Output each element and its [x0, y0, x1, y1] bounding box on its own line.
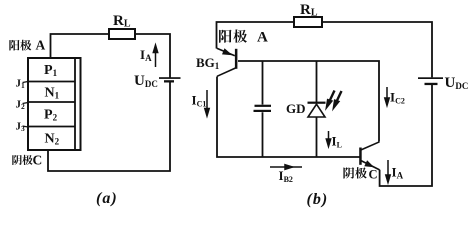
transistor BG1 collector	[217, 68, 236, 76]
svg-text:IC2: IC2	[390, 90, 405, 106]
capacitor C bottom plate	[254, 110, 272, 112]
J1 tick	[23, 82, 29, 83]
junction J2 divider	[28, 101, 75, 103]
wire top right (a)	[135, 34, 170, 78]
wire BG1 collector down	[217, 77, 360, 158]
svg-text:IL: IL	[332, 134, 342, 150]
svg-text:N1: N1	[45, 86, 60, 101]
svg-text:(a): (a)	[96, 190, 118, 207]
transistor BG2 bar	[359, 148, 362, 165]
wire battery down + bottom wire (b)	[380, 85, 432, 186]
battery UDC (a) long plate	[159, 77, 181, 79]
svg-text:(b): (b)	[307, 191, 329, 208]
svg-text:N2: N2	[45, 132, 60, 147]
light arrow 1	[327, 91, 335, 107]
svg-text:J1: J1	[16, 78, 26, 91]
battery UDC (b) short plate	[425, 83, 438, 85]
svg-text:P2: P2	[44, 108, 58, 123]
junction J1 divider	[28, 81, 75, 83]
junction J3 divider	[28, 126, 75, 128]
battery UDC (a) short plate	[164, 80, 174, 82]
svg-text:J3: J3	[16, 121, 26, 134]
svg-text:C: C	[369, 168, 378, 182]
wire battery to bottom (a)	[48, 82, 170, 171]
svg-text:IA: IA	[140, 47, 152, 63]
current arrow IC1	[205, 90, 209, 116]
transistor BG2 collector	[361, 142, 380, 150]
svg-text:A: A	[257, 30, 268, 46]
svg-text:A: A	[36, 38, 46, 53]
label anode A (b)	[219, 29, 247, 42]
current arrow IC2	[385, 87, 389, 106]
current arrow IA (b)	[386, 160, 390, 183]
svg-text:UDC: UDC	[445, 75, 469, 91]
capacitor C top plate	[255, 105, 272, 107]
J3 tick	[23, 126, 29, 127]
BG2 emitter arrowhead (NPN points out)	[364, 160, 374, 167]
svg-text:C: C	[33, 153, 43, 168]
wire top right (b)	[322, 22, 432, 77]
svg-text:IA: IA	[392, 165, 404, 181]
current arrow IB2	[270, 165, 302, 170]
current arrow IL	[326, 131, 330, 147]
transistor BG1 bar	[235, 49, 238, 69]
thyristor stack outer box	[28, 58, 81, 150]
label cathode C (b)	[343, 167, 366, 179]
wire anode lead (a)	[51, 34, 110, 58]
label cathode C (a)	[12, 155, 32, 165]
wire capacitor stems	[262, 61, 264, 157]
resistor RL (a)	[109, 29, 135, 39]
svg-text:J2: J2	[16, 99, 26, 112]
transistor BG1 emitter	[217, 48, 235, 56]
photodiode GD triangle	[308, 104, 325, 117]
svg-text:RL: RL	[300, 2, 318, 19]
label anode A (a)	[9, 40, 31, 51]
light arrow 2	[334, 91, 342, 107]
svg-text:RL: RL	[113, 13, 131, 30]
wire top left (b)	[217, 22, 295, 49]
stack inner vertical line	[74, 58, 76, 150]
transistor BG2 emitter	[361, 161, 380, 170]
svg-text:GD: GD	[286, 101, 306, 116]
current arrow IA (a)	[153, 45, 157, 67]
svg-text:UDC: UDC	[134, 73, 158, 89]
svg-text:IC1: IC1	[192, 93, 207, 109]
BG1 emitter arrowhead (PNP points into bar)	[222, 48, 233, 55]
resistor RL (b)	[294, 17, 322, 27]
wire GD stems	[316, 61, 318, 157]
svg-text:IB2: IB2	[279, 168, 293, 184]
J2 tick	[23, 103, 29, 104]
svg-text:BG1: BG1	[196, 55, 220, 71]
battery UDC (b) long plate	[418, 77, 443, 79]
wire BG1 base to right node	[238, 61, 379, 142]
photodiode GD bar	[308, 102, 326, 104]
svg-text:P1: P1	[44, 63, 58, 78]
